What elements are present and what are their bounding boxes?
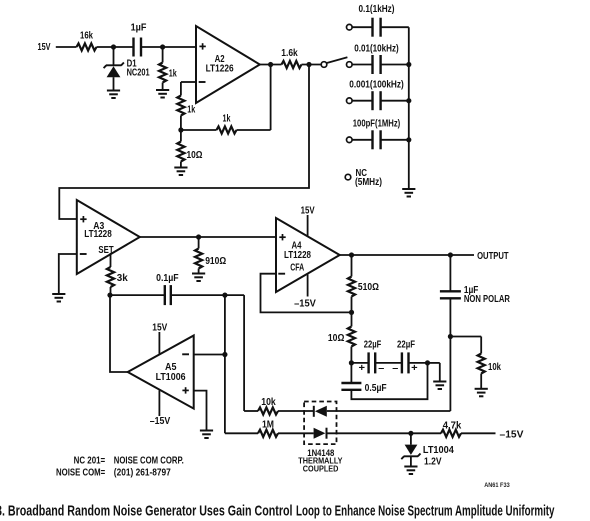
svg-text:LT1226: LT1226 [206,64,234,75]
svg-text:10Ω: 10Ω [187,150,203,161]
svg-text:16k: 16k [80,31,93,42]
svg-text:+: + [411,363,418,374]
svg-text:LT1228: LT1228 [84,229,112,240]
svg-text:1k: 1k [223,114,231,125]
svg-text:0.01(10kHz): 0.01(10kHz) [354,43,399,54]
svg-text:4.7k: 4.7k [443,420,462,431]
svg-text:Loop to Enhance Noise Spectrum: Loop to Enhance Noise Spectrum Amplitude… [296,502,555,519]
svg-text:LT1006: LT1006 [156,372,186,383]
svg-text:LT1228: LT1228 [284,250,311,261]
svg-text:NC 201=: NC 201= [74,456,106,467]
svg-text:510Ω: 510Ω [358,282,379,293]
svg-text:NOISE COM CORP.: NOISE COM CORP. [114,456,184,467]
svg-text:10Ω: 10Ω [328,333,345,344]
svg-text:NC201: NC201 [127,68,150,79]
svg-text:AN61 F33: AN61 F33 [484,482,510,489]
svg-text:15V: 15V [38,42,51,53]
svg-text:–15V: –15V [150,416,171,427]
svg-text:10k: 10k [261,397,276,408]
svg-text:–: – [378,363,384,374]
svg-text:910Ω: 910Ω [205,256,226,267]
svg-text:LT1004: LT1004 [423,445,454,456]
svg-text:CFA: CFA [290,263,304,274]
svg-text:NON POLAR: NON POLAR [464,294,511,305]
svg-text:1k: 1k [187,104,195,115]
svg-text:1µF: 1µF [131,23,147,34]
svg-text:COUPLED: COUPLED [303,463,339,473]
svg-text:0.1µF: 0.1µF [156,273,179,284]
svg-text:–15V: –15V [500,430,524,441]
svg-text:1M: 1M [262,420,274,431]
svg-text:0.1(1kHz): 0.1(1kHz) [359,4,395,15]
svg-text:10k: 10k [488,362,501,373]
svg-text:100pF(1MHz): 100pF(1MHz) [353,119,401,130]
svg-text:3. Broadband Random Noise Gene: 3. Broadband Random Noise Generator Uses… [0,502,293,519]
svg-text:OUTPUT: OUTPUT [477,251,509,262]
svg-text:1.6k: 1.6k [281,48,298,59]
svg-text:1k: 1k [169,68,177,79]
svg-text:15V: 15V [301,205,315,216]
svg-text:22µF: 22µF [397,340,415,351]
svg-text:0.5µF: 0.5µF [365,383,387,394]
svg-text:3k: 3k [117,273,128,284]
svg-text:22µF: 22µF [364,340,382,351]
svg-text:–: – [392,363,398,374]
svg-text:15V: 15V [152,322,167,333]
svg-text:(201) 261-8797: (201) 261-8797 [114,468,171,479]
svg-text:(5MHz): (5MHz) [355,177,382,188]
svg-text:–15V: –15V [294,298,316,309]
svg-text:0.001(100kHz): 0.001(100kHz) [349,80,404,91]
svg-text:NOISE COM=: NOISE COM= [56,468,105,479]
svg-text:+: + [359,363,366,374]
svg-text:1.2V: 1.2V [424,457,442,468]
